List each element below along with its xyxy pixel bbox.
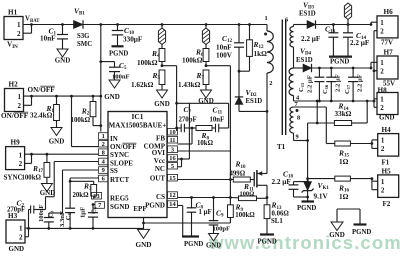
svg-text:2.2 µF: 2.2 µF bbox=[335, 74, 342, 92]
svg-text:GND: GND bbox=[104, 93, 120, 101]
ground symbol in bridge bbox=[329, 222, 345, 239]
wire H9 pin1 row bbox=[25, 153, 99, 155]
junction R2 to VBAT line bbox=[99, 124, 102, 127]
svg-text:2.2 µF: 2.2 µF bbox=[357, 74, 364, 92]
svg-text:IN: IN bbox=[110, 135, 118, 143]
diode VB1 S3G SMC bbox=[74, 7, 93, 49]
svg-text:2: 2 bbox=[102, 141, 105, 148]
svg-text:1µF: 1µF bbox=[80, 207, 87, 218]
svg-text:100kΩ: 100kΩ bbox=[22, 175, 42, 182]
svg-text:S3G: S3G bbox=[77, 33, 90, 40]
junction H9 pins bbox=[30, 153, 33, 156]
capacitor C16 2.2uF bbox=[326, 68, 336, 101]
junction H4 pins bbox=[371, 142, 374, 145]
svg-text:OVI: OVI bbox=[152, 149, 166, 157]
svg-text:PGND: PGND bbox=[352, 229, 371, 236]
svg-text:1Ω: 1Ω bbox=[339, 158, 349, 166]
resistor R4 100k bbox=[137, 45, 165, 68]
inductor bead L1 bbox=[158, 25, 165, 45]
junction C15 bbox=[318, 67, 321, 70]
junction VBAT drop bbox=[99, 23, 102, 26]
ground under R7 bbox=[198, 90, 214, 105]
connector H8 GND bbox=[377, 87, 398, 122]
svg-text:10nF: 10nF bbox=[216, 44, 232, 52]
ground under C9 bbox=[206, 234, 221, 250]
wire H1 pin1 to rail bbox=[23, 24, 74, 26]
junction snubber bbox=[238, 70, 241, 73]
wire R14 to rail bbox=[352, 101, 368, 123]
bottom analog ground rail bbox=[29, 227, 144, 229]
junction NC/Vcc bbox=[180, 158, 183, 161]
svg-text:H6: H6 bbox=[384, 8, 394, 16]
svg-text:14: 14 bbox=[169, 201, 176, 208]
junction C12/rail bbox=[238, 23, 241, 26]
transformer T1 primary pin 2 bbox=[267, 73, 273, 111]
svg-text:2: 2 bbox=[380, 104, 384, 112]
transformer secondary winding D pin 8 bbox=[290, 115, 300, 134]
phase dot secondary bbox=[296, 109, 299, 112]
svg-text:499Ω: 499Ω bbox=[230, 170, 246, 177]
wire OVI bbox=[178, 150, 231, 152]
svg-text:1: 1 bbox=[265, 15, 268, 22]
svg-text:ON/OFF: ON/OFF bbox=[110, 143, 136, 151]
svg-text:H8: H8 bbox=[378, 87, 388, 95]
wire zener branch vertical bbox=[307, 123, 309, 179]
svg-text:F1: F1 bbox=[382, 159, 390, 167]
capacitor C9 100pF bbox=[209, 198, 230, 234]
junction R9 rail/EPF bbox=[142, 222, 145, 225]
IC1 right pin names bbox=[144, 134, 166, 209]
node ON/OFF label bbox=[28, 86, 56, 94]
svg-text:33kΩ: 33kΩ bbox=[335, 110, 352, 118]
svg-text:PGND: PGND bbox=[330, 59, 349, 66]
capacitor C15 2.2uF bbox=[314, 68, 324, 101]
svg-text:GND: GND bbox=[329, 231, 345, 239]
svg-text:77V: 77V bbox=[381, 39, 393, 47]
svg-text:ES1D: ES1D bbox=[246, 98, 263, 105]
svg-text:100kΩ: 100kΩ bbox=[235, 212, 255, 219]
power ground PGND in bridge bbox=[352, 225, 371, 237]
resistor R16 1 ohm bbox=[335, 176, 351, 201]
wire drain to transformer bbox=[266, 111, 268, 173]
svg-text:10: 10 bbox=[169, 129, 175, 136]
svg-text:330µF: 330µF bbox=[123, 35, 143, 43]
svg-text:2: 2 bbox=[18, 102, 22, 110]
wire winding A to VD3 bbox=[294, 24, 308, 26]
svg-text:SL1: SL1 bbox=[271, 218, 283, 225]
junction H7 bbox=[370, 67, 373, 70]
junction C6 top bbox=[92, 203, 95, 206]
junction C3 bottom bbox=[47, 227, 50, 230]
svg-text:9: 9 bbox=[296, 134, 299, 141]
svg-text:20kΩ: 20kΩ bbox=[73, 192, 90, 199]
svg-text:GND: GND bbox=[40, 189, 56, 197]
power ground PGND under C10 bbox=[109, 46, 128, 57]
svg-text:PGND: PGND bbox=[145, 201, 165, 209]
svg-text:IN: IN bbox=[12, 45, 18, 50]
svg-text:100pF: 100pF bbox=[213, 225, 231, 232]
power ground PGND under C8 bbox=[182, 237, 203, 249]
svg-text:1: 1 bbox=[17, 21, 21, 29]
svg-text:100kΩ: 100kΩ bbox=[137, 59, 158, 67]
junction drain/VD2 bbox=[266, 110, 269, 113]
wire H3 pin2 jog bbox=[25, 228, 29, 236]
resistor R6 100k bbox=[182, 45, 209, 66]
connector H4 F1 bbox=[378, 126, 399, 167]
junction L2/rail bbox=[205, 23, 208, 26]
ground under EPF bbox=[136, 229, 152, 249]
svg-text:1: 1 bbox=[19, 225, 23, 233]
diode VD4 ES1D bbox=[296, 47, 313, 73]
wire C6 top to SGND pin bbox=[93, 204, 95, 206]
power ground PGND under C13 C14 bbox=[329, 57, 352, 66]
power ground PGND under zener bbox=[297, 202, 316, 213]
svg-text:1: 1 bbox=[381, 178, 385, 186]
junction C4 bottom bbox=[69, 227, 72, 230]
svg-text:270pF: 270pF bbox=[179, 117, 197, 124]
svg-text:1.62kΩ: 1.62kΩ bbox=[131, 81, 154, 89]
transformer secondary winding A pin 6 bbox=[285, 17, 289, 24]
wire winding B to VD4 bbox=[294, 67, 304, 69]
inductor bead L3 bbox=[344, 3, 351, 25]
svg-text:1kΩ: 1kΩ bbox=[254, 50, 268, 58]
transformer T1 primary winding bbox=[267, 31, 273, 73]
svg-text:C4: C4 bbox=[65, 213, 72, 221]
wire RTCT to C4 bbox=[70, 178, 98, 208]
svg-text:C17: C17 bbox=[344, 84, 351, 94]
svg-text:2: 2 bbox=[19, 160, 23, 168]
resistor R15 1 ohm bbox=[335, 141, 351, 166]
svg-text:3: 3 bbox=[171, 146, 174, 153]
junction C6 bottom bbox=[92, 227, 95, 230]
resistor R2 100k bbox=[71, 96, 101, 126]
transformer T1 primary pin 1 bbox=[265, 15, 268, 31]
wire rail to C10 area bbox=[117, 24, 162, 26]
svg-text:2: 2 bbox=[380, 67, 384, 75]
svg-text:10kΩ: 10kΩ bbox=[197, 140, 214, 147]
phase dot primary bbox=[264, 33, 267, 36]
svg-text:PGND: PGND bbox=[258, 239, 277, 246]
svg-text:C16: C16 bbox=[322, 84, 329, 94]
IC1 left pin names bbox=[110, 135, 136, 211]
wire H4 pin1 bbox=[372, 140, 378, 149]
transformer secondary pin 7 bbox=[295, 101, 299, 108]
svg-text:2.2 µF: 2.2 µF bbox=[307, 75, 314, 93]
junction ON/OFF drop bbox=[70, 95, 73, 98]
wire to H7 pin1 bbox=[371, 62, 377, 68]
svg-text:H2: H2 bbox=[9, 81, 19, 89]
junction H7 return bbox=[373, 69, 376, 72]
svg-text:SMC: SMC bbox=[77, 41, 92, 48]
wire NC tie bbox=[178, 159, 182, 167]
svg-text:100nF: 100nF bbox=[112, 74, 130, 81]
capacitor C12 10nF 100V bbox=[216, 25, 244, 72]
junction C9 top bbox=[212, 196, 215, 199]
wire R14 left row bbox=[308, 122, 335, 124]
ground under C1 bbox=[55, 49, 71, 65]
wire rail segment2 bbox=[206, 24, 267, 26]
svg-text:100kΩ: 100kΩ bbox=[182, 57, 203, 65]
svg-text:GND: GND bbox=[379, 113, 395, 121]
svg-text:GND: GND bbox=[154, 100, 170, 108]
transformer T1 label bbox=[277, 143, 286, 151]
junction C10/rail bbox=[116, 23, 119, 26]
wire R6/R7 junction to OVI vertical bbox=[206, 65, 230, 67]
svg-text:2: 2 bbox=[380, 27, 384, 35]
connector H7 55V bbox=[377, 49, 398, 88]
secondary return rail PGND bbox=[294, 100, 375, 102]
resistor R13 0.06 SL1 bbox=[264, 198, 289, 235]
diode VD2 ES1D bbox=[235, 71, 262, 111]
wire snubber bottom bar bbox=[239, 70, 250, 72]
svg-text:32.4kΩ: 32.4kΩ bbox=[30, 112, 53, 120]
capacitor C2 270pF bbox=[7, 198, 36, 228]
wire 55V rail bbox=[312, 67, 372, 69]
svg-text:F2: F2 bbox=[383, 200, 391, 208]
svg-text:Vcc: Vcc bbox=[154, 157, 165, 165]
junction OUT/vertical bbox=[229, 178, 232, 181]
svg-text:H3: H3 bbox=[8, 212, 18, 220]
connector H9 SYNC bbox=[4, 139, 25, 182]
capacitor C8 1uF bbox=[187, 198, 212, 237]
svg-text:12: 12 bbox=[169, 192, 175, 199]
ground under R1 bbox=[49, 128, 65, 146]
wire VD3 to H6 bbox=[316, 24, 372, 26]
svg-text:MAX15005BAUE+: MAX15005BAUE+ bbox=[109, 122, 167, 130]
junction H3/C2 bbox=[27, 227, 30, 230]
ground under C5 bbox=[104, 80, 120, 101]
power ground PGND under R13 bbox=[258, 235, 277, 246]
svg-text:PGND: PGND bbox=[109, 51, 128, 58]
wire H1 pin2 jog bbox=[23, 25, 32, 34]
svg-text:100kΩ: 100kΩ bbox=[71, 117, 91, 124]
wire R9 bottom rail bbox=[144, 222, 231, 224]
junction H6 bbox=[370, 23, 373, 26]
junction R14 row bbox=[316, 122, 319, 125]
wire H5 pin1 bbox=[372, 181, 378, 190]
junction C16 bottom bbox=[330, 100, 333, 103]
wire H2 pin2 jog bbox=[24, 96, 32, 105]
wire to C5 bbox=[101, 62, 115, 68]
svg-text:16: 16 bbox=[169, 155, 176, 162]
ground under R5 bbox=[154, 90, 170, 108]
svg-text:8: 8 bbox=[297, 115, 300, 122]
svg-text:NC: NC bbox=[155, 165, 165, 173]
svg-text:0.06Ω: 0.06Ω bbox=[272, 211, 290, 218]
transformer secondary winding B bbox=[289, 68, 293, 96]
capacitor C7 270pF bbox=[177, 105, 197, 132]
svg-text:100nF: 100nF bbox=[38, 204, 45, 222]
svg-text:PGND: PGND bbox=[297, 205, 316, 212]
resistor R10 499 bbox=[230, 160, 251, 182]
svg-text:2: 2 bbox=[381, 186, 385, 194]
transformer T1 core bbox=[282, 20, 285, 136]
svg-text:C3: C3 bbox=[48, 210, 55, 218]
svg-text:1 µF: 1 µF bbox=[199, 209, 212, 216]
junction R17 top bbox=[46, 153, 49, 156]
junction source/R13 bbox=[266, 196, 269, 199]
svg-text:GND: GND bbox=[55, 57, 71, 65]
resistor R9 100k bbox=[228, 203, 256, 223]
zener VK1 9.1V bbox=[302, 179, 330, 202]
svg-text:SYNC: SYNC bbox=[4, 174, 23, 182]
connector H3 GND bbox=[6, 212, 25, 253]
junction zener bottom bbox=[306, 196, 309, 199]
wire PGND pin to bar bbox=[178, 206, 183, 237]
junction VBAT/C5 bbox=[99, 60, 102, 63]
junction H2 pins bbox=[30, 95, 33, 98]
svg-text:SGND: SGND bbox=[110, 203, 129, 211]
capacitor C4 3.3nF bbox=[65, 208, 75, 228]
junction C13/rail bbox=[332, 23, 335, 26]
capacitor C10 330uF bbox=[112, 25, 143, 46]
resistor R12 1k bbox=[247, 25, 267, 72]
capacitor C18 2.2uF bbox=[272, 169, 308, 197]
transformer secondary winding A bbox=[290, 25, 294, 69]
connector H1 bbox=[4, 9, 23, 51]
svg-text:1: 1 bbox=[102, 133, 105, 140]
wire OVI sense vertical bbox=[229, 66, 231, 151]
wire FB divider vertical bbox=[176, 66, 178, 131]
transformer secondary winding C bbox=[290, 107, 294, 122]
resistor R7 1.43k bbox=[178, 70, 209, 90]
connector H6 77V bbox=[377, 8, 398, 47]
svg-text:H5: H5 bbox=[382, 168, 392, 176]
wire VB1 to node bbox=[83, 24, 117, 26]
transformer secondary pin 4 bbox=[294, 95, 301, 102]
svg-text:5: 5 bbox=[171, 163, 174, 170]
svg-text:ON/OFF: ON/OFF bbox=[28, 86, 56, 94]
connector H2 ON/OFF bbox=[1, 81, 29, 120]
svg-text:1.43kΩ: 1.43kΩ bbox=[178, 81, 201, 89]
svg-text:9.1V: 9.1V bbox=[314, 193, 329, 201]
wire to H6 pin1 bbox=[371, 22, 377, 24]
junction FB/C7 bbox=[175, 127, 178, 130]
svg-text:10nF: 10nF bbox=[210, 117, 225, 124]
wire ground bridge bbox=[337, 209, 360, 225]
junction pin9/zener branch bbox=[306, 139, 309, 142]
junction R1 top bbox=[55, 95, 58, 98]
wire H2 pin1 row bbox=[24, 95, 101, 97]
capacitor C1 10nF bbox=[40, 25, 68, 50]
wire ON/OFF drop to IC pin 2 bbox=[72, 96, 99, 147]
svg-text:GND: GND bbox=[9, 245, 25, 253]
IC1 exposed pad EPF label bbox=[133, 205, 146, 213]
svg-text:GND: GND bbox=[49, 138, 65, 146]
diode VD3 ES1D bbox=[299, 1, 316, 29]
svg-text:100Ω: 100Ω bbox=[240, 190, 255, 197]
resistor R5 1.62k bbox=[131, 70, 165, 90]
capacitor C14 2.2uF bbox=[343, 25, 370, 57]
svg-text:CS: CS bbox=[156, 193, 165, 201]
capacitor C13 2.2uF bbox=[301, 25, 338, 57]
svg-text:2.2 µF: 2.2 µF bbox=[350, 39, 370, 47]
wire H8 pin2 bbox=[374, 101, 377, 107]
wire EPF to ground bbox=[143, 218, 145, 230]
svg-text:10nF: 10nF bbox=[40, 35, 56, 43]
wire H7 pin2 return bbox=[374, 70, 377, 72]
wire H8 pin1 bbox=[374, 98, 377, 100]
svg-text:11: 11 bbox=[169, 137, 175, 144]
svg-text:1Ω: 1Ω bbox=[339, 193, 349, 201]
svg-text:2: 2 bbox=[269, 80, 272, 87]
svg-text:2: 2 bbox=[17, 30, 21, 38]
wire VD2 to drain node bbox=[239, 110, 267, 112]
svg-text:SS: SS bbox=[110, 167, 118, 175]
svg-text:1: 1 bbox=[380, 59, 384, 67]
wire VBAT vertical to IC pin 1 bbox=[100, 25, 102, 132]
IC1 right pin number boxes bbox=[168, 128, 178, 208]
svg-text:BAT: BAT bbox=[30, 19, 40, 24]
svg-text:1: 1 bbox=[18, 93, 22, 101]
svg-text:PGND: PGND bbox=[184, 241, 203, 248]
svg-text:REG5: REG5 bbox=[110, 195, 129, 203]
svg-text:ES1D: ES1D bbox=[296, 57, 313, 64]
wire OUT to R10 bbox=[178, 179, 234, 181]
junction C7/R8 bbox=[191, 127, 194, 130]
junction C14/rail bbox=[347, 23, 350, 26]
wire H3 pin1 bbox=[25, 227, 29, 229]
capacitor C6 1uF bbox=[88, 205, 98, 229]
wire link to C11 branch bbox=[177, 103, 229, 128]
junction C8 top bbox=[190, 196, 193, 199]
junction C17 bbox=[352, 67, 355, 70]
wire R16 to H5 bbox=[350, 178, 372, 180]
junction CS/R11 bbox=[229, 196, 232, 199]
junction R12/rail bbox=[248, 23, 251, 26]
node VBAT label bbox=[25, 15, 40, 24]
wire pin 7 to R15 bbox=[294, 107, 335, 144]
svg-text:2: 2 bbox=[381, 145, 385, 153]
wire to R14 bbox=[316, 101, 318, 123]
wire R4/R5 junction to FB vertical bbox=[162, 65, 177, 67]
svg-text:GND: GND bbox=[206, 243, 221, 250]
junction C15 bottom bbox=[318, 100, 321, 103]
junction ON/OFF to VBAT line bbox=[99, 95, 102, 98]
junction H5 pins bbox=[371, 177, 374, 180]
wire R16 junction to H5 bbox=[371, 179, 373, 182]
junction R2 top bbox=[92, 95, 95, 98]
wire H6 pin2 return bbox=[374, 31, 377, 101]
wire gate drive vertical bbox=[229, 151, 231, 205]
junction C1/rail bbox=[61, 23, 64, 26]
junction RTCT/R3 bbox=[69, 180, 72, 183]
svg-text:2: 2 bbox=[19, 233, 23, 241]
IC1 left pin number boxes bbox=[92, 133, 109, 209]
junction H1 pins bbox=[30, 23, 33, 26]
svg-text:1: 1 bbox=[380, 19, 384, 27]
svg-text:C6: C6 bbox=[91, 206, 98, 214]
inductor bead L2 bbox=[202, 25, 209, 45]
connector H5 F2 bbox=[378, 168, 399, 209]
wire COMP drop bbox=[178, 128, 193, 144]
wire source down bbox=[266, 185, 268, 197]
wire H9 pin2 jog bbox=[25, 154, 32, 163]
svg-text:T1: T1 bbox=[277, 143, 286, 151]
resistor R11 100 bbox=[230, 182, 267, 200]
junction L1/rail bbox=[161, 23, 164, 26]
svg-text:1: 1 bbox=[19, 151, 23, 159]
resistor R1 32.4k bbox=[30, 96, 59, 127]
capacitor C17 2.2uF bbox=[348, 68, 358, 101]
svg-text:ES1D: ES1D bbox=[299, 11, 316, 18]
junction zener/R16 bbox=[306, 177, 309, 180]
wire CS row bbox=[178, 197, 231, 199]
resistor R8 10k bbox=[192, 126, 214, 147]
wire SS to C3 bbox=[49, 170, 99, 213]
junction zener top bbox=[306, 180, 309, 183]
svg-text:2.2 µF: 2.2 µF bbox=[301, 35, 321, 43]
